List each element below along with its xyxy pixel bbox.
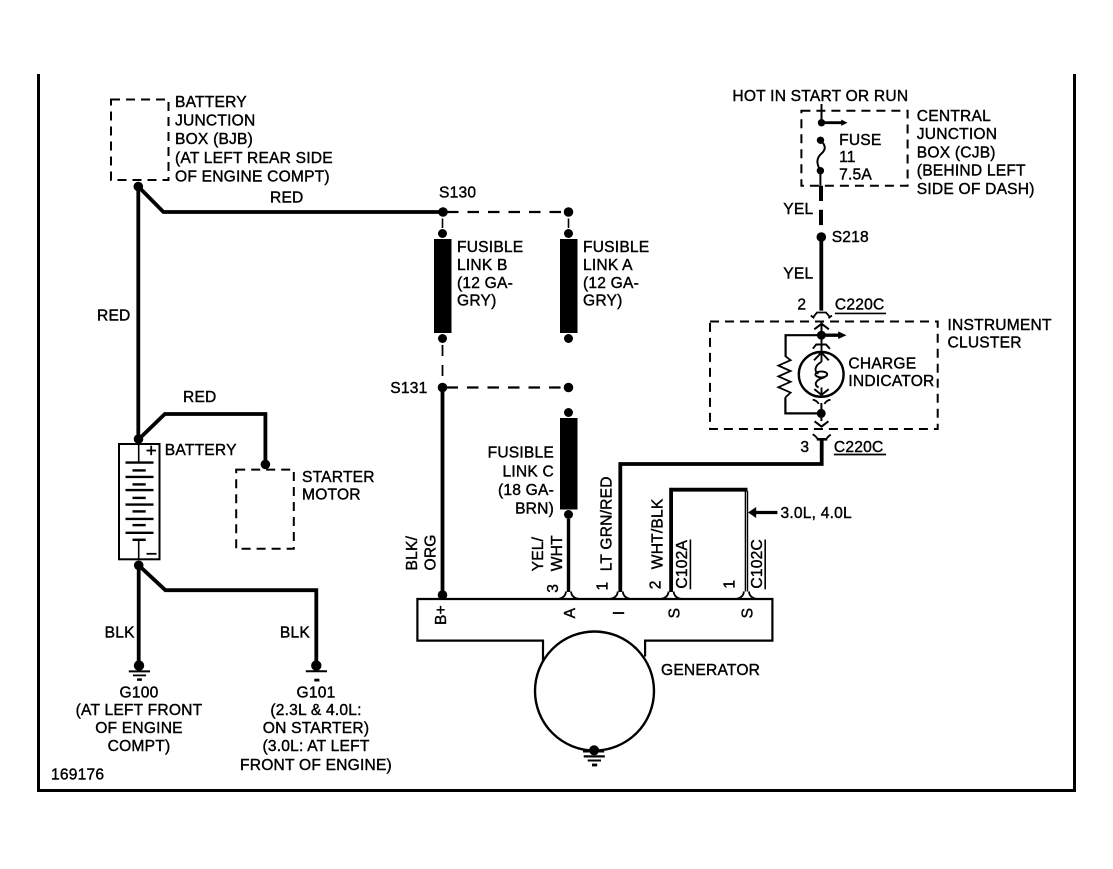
svg-text:FUSIBLE: FUSIBLE [488,445,554,462]
svg-text:S130: S130 [439,185,476,202]
svg-text:CENTRAL: CENTRAL [917,108,991,125]
svg-text:CHARGE: CHARGE [848,356,916,373]
svg-text:INSTRUMENT: INSTRUMENT [948,317,1052,334]
svg-text:I: I [611,611,628,616]
svg-text:(3.0L: AT LEFT: (3.0L: AT LEFT [262,738,369,755]
svg-text:FRONT OF ENGINE): FRONT OF ENGINE) [240,757,392,774]
svg-text:3.0L, 4.0L: 3.0L, 4.0L [781,505,852,522]
svg-text:A: A [562,607,579,618]
svg-text:FUSIBLE: FUSIBLE [457,239,523,256]
svg-text:BLK: BLK [105,624,135,641]
svg-text:BATTERY: BATTERY [165,442,237,459]
svg-text:(12 GA-: (12 GA- [457,275,513,292]
svg-text:C102A: C102A [674,540,691,589]
svg-text:MOTOR: MOTOR [302,486,361,503]
svg-text:SIDE OF DASH): SIDE OF DASH) [917,181,1035,198]
svg-text:(18 GA-: (18 GA- [498,482,554,499]
svg-text:3: 3 [800,439,809,456]
svg-text:S218: S218 [832,229,869,246]
svg-text:(12 GA-: (12 GA- [583,275,639,292]
svg-text:WHT/BLK: WHT/BLK [649,498,666,569]
svg-text:C220C: C220C [834,439,884,456]
svg-text:2: 2 [797,296,806,313]
svg-text:RED: RED [97,307,131,324]
svg-text:JUNCTION: JUNCTION [175,113,255,130]
svg-text:HOT IN START OR RUN: HOT IN START OR RUN [732,88,908,105]
svg-text:BATTERY: BATTERY [175,94,247,111]
svg-text:ON STARTER): ON STARTER) [263,720,369,737]
svg-text:BRN): BRN) [515,501,554,518]
svg-text:1: 1 [721,580,738,589]
svg-text:STARTER: STARTER [302,469,375,486]
svg-text:G100: G100 [120,685,159,702]
svg-text:LINK B: LINK B [457,257,508,274]
svg-text:2: 2 [648,580,665,589]
svg-text:COMPT): COMPT) [108,738,171,755]
svg-text:OF ENGINE: OF ENGINE [95,720,183,737]
svg-text:YEL/: YEL/ [530,536,547,571]
svg-text:GRY): GRY) [457,293,497,310]
svg-text:11: 11 [839,149,856,166]
svg-text:BOX (BJB): BOX (BJB) [175,131,253,148]
svg-text:C220C: C220C [835,296,885,313]
svg-text:LT GRN/RED: LT GRN/RED [598,476,615,571]
svg-text:RED: RED [270,190,304,207]
svg-text:GENERATOR: GENERATOR [661,662,760,679]
svg-text:YEL: YEL [783,201,813,218]
svg-text:LINK A: LINK A [583,257,633,274]
svg-text:JUNCTION: JUNCTION [917,126,997,143]
svg-text:S: S [740,608,757,619]
svg-text:CLUSTER: CLUSTER [948,335,1022,352]
svg-text:RED: RED [183,389,217,406]
svg-text:S: S [667,608,684,619]
svg-text:LINK C: LINK C [503,463,554,480]
svg-text:BLK: BLK [280,624,310,641]
svg-text:OF ENGINE COMPT): OF ENGINE COMPT) [175,168,330,185]
svg-text:YEL: YEL [783,265,813,282]
svg-text:(2.3L & 4.0L:: (2.3L & 4.0L: [270,702,361,719]
svg-text:ORG: ORG [423,534,440,570]
svg-text:(AT LEFT REAR SIDE: (AT LEFT REAR SIDE [175,150,333,167]
svg-text:FUSIBLE: FUSIBLE [583,239,649,256]
svg-text:GRY): GRY) [583,293,623,310]
svg-text:S131: S131 [390,380,427,397]
svg-text:BLK/: BLK/ [404,535,421,570]
svg-text:(BEHIND LEFT: (BEHIND LEFT [917,163,1026,180]
svg-text:7.5A: 7.5A [839,166,872,183]
svg-text:3: 3 [545,584,562,593]
svg-text:G101: G101 [297,685,336,702]
svg-text:BOX (CJB): BOX (CJB) [917,144,996,161]
svg-text:169176: 169176 [51,767,104,784]
svg-text:FUSE: FUSE [839,132,881,149]
svg-text:1: 1 [594,582,611,591]
svg-text:INDICATOR: INDICATOR [848,373,934,390]
svg-text:WHT: WHT [549,535,566,571]
svg-text:C102C: C102C [749,539,766,589]
svg-text:(AT LEFT FRONT: (AT LEFT FRONT [76,702,203,719]
svg-text:B+: B+ [433,605,450,625]
